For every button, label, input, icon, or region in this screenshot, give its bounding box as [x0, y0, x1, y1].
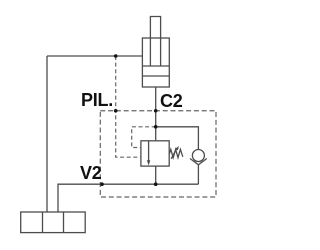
- node junction bottom line: [154, 182, 158, 186]
- cylinder body: [142, 38, 169, 87]
- wire valve bottom to bottom line: [155, 166, 157, 184]
- label PIL.: [81, 91, 113, 109]
- wire V2 port out to left and down: [58, 184, 102, 212]
- node PIL port on envelope: [114, 109, 118, 113]
- cylinder piston: [142, 66, 169, 76]
- valve arrowhead: [147, 160, 150, 165]
- wire cylinder to left: [47, 55, 142, 57]
- check valve seat: [190, 159, 207, 165]
- spring adjust arrow shaft: [171, 148, 177, 159]
- manifold block: [21, 212, 86, 233]
- wire check valve bottom down: [197, 165, 199, 184]
- spring: [169, 149, 183, 157]
- label V2: [80, 164, 102, 182]
- wire bottom V2 line inside box: [102, 183, 198, 185]
- node junction C2 pilot: [154, 125, 158, 129]
- node junction on wire A: [114, 54, 118, 58]
- wire left vertical down to block: [46, 56, 48, 212]
- spring arrowhead: [175, 146, 179, 150]
- wire junction to check valve top: [156, 127, 199, 150]
- cylinder rod: [150, 17, 160, 66]
- node C2 port on envelope: [154, 109, 158, 113]
- valve U1 square: [141, 141, 169, 166]
- node V2 port on envelope: [100, 182, 104, 186]
- envelope dashed box: [100, 111, 216, 197]
- wire C2 cylinder down to valve: [155, 87, 157, 141]
- pilot line internal from C2 junction: [132, 127, 156, 148]
- label C2: [160, 92, 183, 110]
- valve U1 internal arrow: [148, 141, 150, 162]
- check valve circle: [192, 150, 204, 162]
- pilot line PIL dashed vertical: [116, 56, 141, 157]
- manifold block dividers: [43, 212, 64, 233]
